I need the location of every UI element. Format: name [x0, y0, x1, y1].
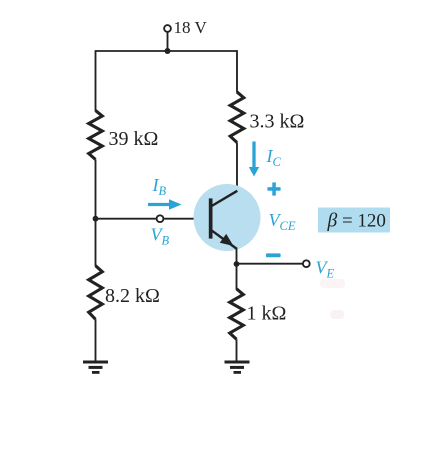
wire left lower: [95, 319, 97, 362]
svg-text:8.2 kΩ: 8.2 kΩ: [105, 285, 160, 307]
svg-text:VE: VE: [316, 258, 335, 281]
ground left: [83, 362, 108, 372]
svg-text:β = 120: β = 120: [327, 211, 386, 232]
wire left middle: [95, 160, 97, 267]
minus sign VCE: [266, 253, 281, 257]
ground right: [225, 362, 250, 372]
junction top: [165, 48, 171, 54]
wire collector: [236, 143, 238, 192]
transistor Q1 base bar: [209, 198, 213, 238]
supply terminal 18 V: [164, 25, 171, 32]
wire left upper: [95, 50, 97, 111]
junction emitter node: [234, 261, 240, 267]
wire top rail: [96, 50, 238, 52]
svg-text:3.3 kΩ: 3.3 kΩ: [250, 111, 305, 133]
wire supply drop: [167, 32, 169, 51]
plus sign VCE: [267, 182, 280, 195]
wire emitter drop: [236, 248, 238, 267]
resistor RE 1k: [230, 289, 244, 340]
resistor RC 3.3k: [230, 92, 244, 143]
svg-text:IC: IC: [266, 146, 282, 169]
wire to RE: [236, 264, 238, 290]
svg-text:VB: VB: [151, 225, 170, 248]
svg-text:39 kΩ: 39 kΩ: [109, 128, 159, 150]
wire right lower: [236, 339, 238, 362]
resistor R1 39k: [89, 111, 103, 160]
transistor Q1 collector lead: [211, 191, 238, 207]
node VE terminal: [303, 260, 310, 267]
wire right upper: [236, 50, 238, 92]
wire base: [96, 218, 210, 220]
svg-text:IB: IB: [152, 175, 167, 198]
node VB terminal: [157, 215, 164, 222]
svg-text:18 V: 18 V: [174, 18, 208, 37]
svg-text:VCE: VCE: [269, 210, 296, 233]
transistor Q1 emitter arrowhead: [220, 234, 234, 246]
current arrow IC: [249, 142, 259, 177]
wire emitter to VE: [237, 263, 303, 265]
smudge artifact: [330, 310, 344, 319]
node base junction: [93, 216, 99, 222]
svg-text:1 kΩ: 1 kΩ: [247, 303, 287, 325]
current arrow IB: [148, 199, 182, 209]
transistor Q1 body: [194, 184, 261, 251]
beta box: [318, 208, 390, 233]
transistor Q1 emitter lead: [211, 230, 237, 249]
smudge artifact 2: [320, 279, 345, 288]
resistor R2 8.2k: [89, 266, 103, 320]
